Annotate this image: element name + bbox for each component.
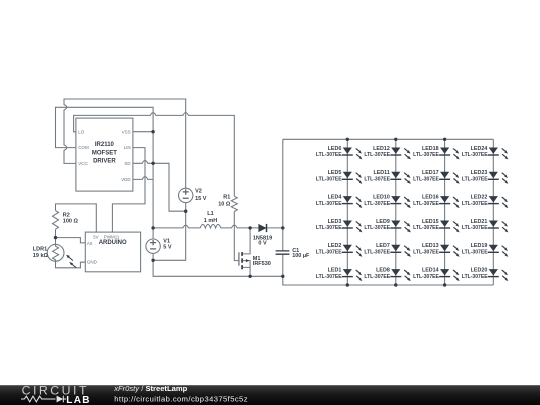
svg-text:LED15: LED15 xyxy=(422,219,439,225)
svg-text:R1: R1 xyxy=(223,195,230,201)
svg-text:100 µF: 100 µF xyxy=(292,253,310,259)
wire LED column 4 xyxy=(492,139,494,285)
svg-text:LTL-307EE: LTL-307EE xyxy=(316,201,342,207)
photoresistor LDR1 19 kOhm xyxy=(33,244,76,267)
wire LDR1 bottom to Arduino GND pin xyxy=(56,261,86,268)
svg-text:V2: V2 xyxy=(195,189,202,195)
svg-text:100 Ω: 100 Ω xyxy=(63,219,79,225)
svg-text:LTL-307EE: LTL-307EE xyxy=(364,201,390,207)
CircuitLab logo xyxy=(21,384,91,405)
wire LO to R1 (hops over V1 and V2 verticals) xyxy=(74,113,235,197)
wire LED column 3 xyxy=(444,139,446,285)
LED LED21 LTL-307EE xyxy=(462,219,509,233)
svg-text:GND: GND xyxy=(87,260,98,265)
LED LED18 LTL-307EE xyxy=(413,146,460,160)
svg-text:LED2: LED2 xyxy=(328,243,342,249)
svg-text:LED10: LED10 xyxy=(373,195,390,201)
wire SD to V2- (hop over PWM11 wire, junction on V1 net) xyxy=(133,161,186,212)
svg-text:LTL-307EE: LTL-307EE xyxy=(413,201,439,207)
svg-text:LTL-307EE: LTL-307EE xyxy=(462,177,488,183)
svg-text:LO: LO xyxy=(78,129,85,134)
junction bottom rail column 2 xyxy=(394,283,397,286)
wire V1- to ground rail xyxy=(153,253,283,276)
wire LED column 1 xyxy=(346,139,348,285)
svg-text:LED8: LED8 xyxy=(376,268,390,274)
LED LED5 LTL-307EE xyxy=(316,170,363,184)
voltage source V1 5 V xyxy=(146,239,172,254)
svg-text:LED4: LED4 xyxy=(328,195,342,201)
junction M1 drain / diode anode xyxy=(248,226,251,229)
LED LED22 LTL-307EE xyxy=(462,195,509,209)
junction L1 wire / V1 net xyxy=(151,226,154,229)
svg-text:LED11: LED11 xyxy=(373,170,389,176)
wire VSS pin to V1 net xyxy=(133,131,153,133)
junction VSS / V1 net xyxy=(151,130,154,133)
svg-text:SD: SD xyxy=(124,161,131,166)
LED LED19 LTL-307EE xyxy=(462,243,509,257)
svg-text:LDR1: LDR1 xyxy=(33,247,47,253)
svg-text:LED24: LED24 xyxy=(471,146,488,152)
svg-text:LED16: LED16 xyxy=(422,195,439,201)
svg-text:LTL-307EE: LTL-307EE xyxy=(413,177,439,183)
svg-text:LIN: LIN xyxy=(124,145,131,150)
wire V2- down to V1- junction xyxy=(153,203,186,261)
LED LED13 LTL-307EE xyxy=(413,243,460,257)
junction V1- / V2- xyxy=(151,259,154,262)
svg-text:VDD: VDD xyxy=(121,177,131,182)
svg-text:LTL-307EE: LTL-307EE xyxy=(462,152,488,158)
wire LED array left frame (diode node to top rail, C1 branch) xyxy=(283,139,494,285)
wire R1 bottom to M1 gate xyxy=(234,212,239,261)
svg-text:LED23: LED23 xyxy=(471,170,488,176)
junction SD / V1 net xyxy=(151,162,154,165)
LED LED4 LTL-307EE xyxy=(316,195,363,209)
LED LED9 LTL-307EE xyxy=(364,219,411,233)
op-amp U1 IR2110 MOSFET driver IC xyxy=(76,118,133,191)
wire A0 tap to Arduino A0 pin xyxy=(56,238,86,243)
svg-text:LED1: LED1 xyxy=(328,268,342,274)
svg-text:LTL-307EE: LTL-307EE xyxy=(462,250,488,256)
wire Arduino 5V to R2 top xyxy=(56,204,97,232)
wire COM to V1+ vertical (net: COM, VSS, SD, VDD, V1+, L1) xyxy=(56,107,154,239)
LED LED2 LTL-307EE xyxy=(316,243,363,257)
svg-text:LED17: LED17 xyxy=(422,170,439,176)
svg-text:COM: COM xyxy=(78,145,89,150)
footer bar xyxy=(0,385,540,405)
capacitor C1 100 uF xyxy=(276,248,310,259)
resistor R2 100 Ohm xyxy=(53,211,79,230)
svg-text:A0: A0 xyxy=(87,241,93,246)
LED LED1 LTL-307EE xyxy=(316,268,363,282)
junction bottom rail column 3 xyxy=(443,283,446,286)
svg-text:LTL-307EE: LTL-307EE xyxy=(413,274,439,280)
svg-text:LTL-307EE: LTL-307EE xyxy=(462,225,488,231)
svg-text:ARDUINO: ARDUINO xyxy=(99,240,127,246)
svg-text:LED6: LED6 xyxy=(328,146,342,152)
svg-text:LED7: LED7 xyxy=(376,243,390,249)
IC U2 Arduino xyxy=(85,232,140,272)
LED LED17 LTL-307EE xyxy=(413,170,460,184)
wire LED array top rail xyxy=(283,138,494,140)
LED LED3 LTL-307EE xyxy=(316,219,363,233)
svg-text:LED12: LED12 xyxy=(373,146,390,152)
svg-text:LTL-307EE: LTL-307EE xyxy=(316,250,342,256)
svg-text:LED3: LED3 xyxy=(328,219,342,225)
svg-text:MOFSET: MOFSET xyxy=(92,150,117,156)
svg-text:LTL-307EE: LTL-307EE xyxy=(364,274,390,280)
wire V1+/L1 node to diode and C1 (hops over V2- and gate wires) xyxy=(153,225,283,228)
wire VDD to V1 net (hop over PWM11 wire) xyxy=(133,177,153,180)
svg-text:L1: L1 xyxy=(207,211,213,217)
LED LED16 LTL-307EE xyxy=(413,195,460,209)
LED LED20 LTL-307EE xyxy=(462,268,509,282)
junction SD wire / V2- xyxy=(184,210,187,213)
junction top rail column 1 xyxy=(346,138,349,141)
wire LED column 2 xyxy=(395,139,397,285)
wire VCC to V2+ (net with hops over COM and V1 wires) xyxy=(64,99,186,188)
svg-text:LTL-307EE: LTL-307EE xyxy=(413,225,439,231)
svg-text:LTL-307EE: LTL-307EE xyxy=(316,225,342,231)
svg-text:LTL-307EE: LTL-307EE xyxy=(364,250,390,256)
svg-text:PWM11: PWM11 xyxy=(104,235,120,240)
LED LED14 LTL-307EE xyxy=(413,268,460,282)
voltage source V2 15 V xyxy=(179,188,207,202)
wire R2 bottom to LDR1 top xyxy=(55,229,57,244)
junction M1 source / ground rail xyxy=(248,275,251,278)
svg-text:LED13: LED13 xyxy=(422,243,439,249)
svg-text:xFr0sty / StreetLamp: xFr0sty / StreetLamp xyxy=(113,384,187,393)
inductor L1 1 mH xyxy=(200,211,220,228)
LED LED8 LTL-307EE xyxy=(364,268,411,282)
LED LED12 LTL-307EE xyxy=(364,146,411,160)
svg-text:V1: V1 xyxy=(163,239,170,245)
svg-text:LAB: LAB xyxy=(66,395,90,405)
svg-text:19 kΩ: 19 kΩ xyxy=(33,253,49,259)
svg-text:LED14: LED14 xyxy=(422,268,439,274)
junction top rail column 3 xyxy=(443,138,446,141)
svg-text:VCC: VCC xyxy=(78,161,88,166)
svg-text:10 Ω: 10 Ω xyxy=(218,201,231,207)
svg-text:DRIVER: DRIVER xyxy=(93,159,116,165)
svg-text:0 V: 0 V xyxy=(258,241,267,247)
svg-text:http://circuitlab.com/cbp34375: http://circuitlab.com/cbp34375f5c5z xyxy=(114,394,248,403)
svg-text:R2: R2 xyxy=(63,212,70,218)
junction A0 tap on LDR net xyxy=(54,236,57,239)
footer URL xyxy=(114,394,248,403)
footer author / title xyxy=(113,384,187,393)
junction bottom rail column 1 xyxy=(346,283,349,286)
svg-text:LTL-307EE: LTL-307EE xyxy=(364,152,390,158)
svg-text:1 mH: 1 mH xyxy=(204,218,217,224)
wire LIN to Arduino PWM11 xyxy=(112,148,145,233)
svg-text:LTL-307EE: LTL-307EE xyxy=(413,152,439,158)
svg-text:LTL-307EE: LTL-307EE xyxy=(316,177,342,183)
svg-text:LED22: LED22 xyxy=(471,195,488,201)
svg-text:LTL-307EE: LTL-307EE xyxy=(462,274,488,280)
svg-text:5 V: 5 V xyxy=(163,245,172,251)
LED LED11 LTL-307EE xyxy=(364,170,411,184)
svg-text:IRF530: IRF530 xyxy=(253,261,271,267)
svg-text:LTL-307EE: LTL-307EE xyxy=(462,201,488,207)
transistor M1 IRF530 NMOS xyxy=(239,228,271,276)
junction top rail column 2 xyxy=(394,138,397,141)
svg-text:LED9: LED9 xyxy=(376,219,390,225)
svg-text:LTL-307EE: LTL-307EE xyxy=(316,274,342,280)
LED LED7 LTL-307EE xyxy=(364,243,411,257)
resistor R1 10 Ohm xyxy=(218,195,237,212)
svg-text:LTL-307EE: LTL-307EE xyxy=(364,225,390,231)
svg-text:LED20: LED20 xyxy=(471,268,488,274)
svg-text:LED18: LED18 xyxy=(422,146,439,152)
junction C1 bottom / ground rail xyxy=(281,275,284,278)
diode D1 1N5819 xyxy=(253,224,272,247)
svg-text:LTL-307EE: LTL-307EE xyxy=(316,152,342,158)
LED LED24 LTL-307EE xyxy=(462,146,509,160)
svg-text:VSS: VSS xyxy=(122,129,131,134)
svg-text:LED19: LED19 xyxy=(471,243,488,249)
svg-text:LTL-307EE: LTL-307EE xyxy=(364,177,390,183)
junction diode cathode / C1 / LED frame xyxy=(281,226,284,229)
svg-text:LED5: LED5 xyxy=(328,170,342,176)
LED LED15 LTL-307EE xyxy=(413,219,460,233)
LED LED6 LTL-307EE xyxy=(316,146,363,160)
svg-text:LTL-307EE: LTL-307EE xyxy=(413,250,439,256)
LED LED23 LTL-307EE xyxy=(462,170,509,184)
svg-text:15 V: 15 V xyxy=(195,196,207,202)
svg-text:5V: 5V xyxy=(93,235,99,240)
LED LED10 LTL-307EE xyxy=(364,195,411,209)
svg-text:LED21: LED21 xyxy=(471,219,488,225)
svg-text:IR2110: IR2110 xyxy=(95,142,115,148)
